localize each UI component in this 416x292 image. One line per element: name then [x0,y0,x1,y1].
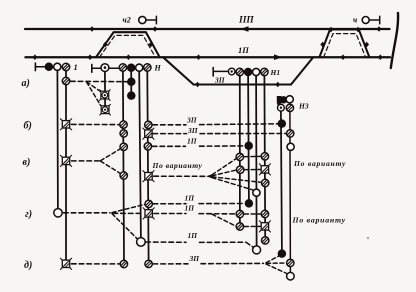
row б filled circle right [278,120,286,128]
row в lower hatched circle c123 [120,172,127,179]
row г dashed line3 right [200,241,247,243]
dash between y170 [245,169,261,171]
speckle [367,237,369,239]
row б dashed line 1 right [200,123,278,126]
tick on 3П [195,82,200,88]
row г dashed left [64,212,111,214]
signal group 1 mast [35,63,45,71]
tick on 1П right [378,54,383,60]
svg-text:1П: 1П [238,45,249,55]
signal group Н hatched lamp [119,64,126,71]
signal ч2 [123,16,157,25]
row д dashed mid [153,263,188,265]
svg-text:1П: 1П [185,204,196,213]
filled circle c281 y253 [278,250,286,258]
svg-text:По варианту: По варианту [293,159,346,168]
svg-text:г): г) [25,209,32,220]
row б hatched circle c123 [120,121,127,128]
svg-text:3П: 3П [214,76,226,85]
tick on right slope [149,42,154,48]
crossover trapezoid left dashed [100,35,156,57]
turnout diagonal 1П to 3П [163,57,194,84]
row а fan dash 1 [87,82,101,92]
row г dashed line2 mid [154,213,186,215]
row в hatched square [60,155,71,166]
track line 1П [25,56,390,58]
page curve right edge [391,13,398,68]
svg-text:1П: 1П [185,194,196,203]
tick on 1П [196,54,201,60]
row г hatched circle c265 y214 [261,210,268,217]
svg-text:3П: 3П [186,116,198,125]
svg-text:IIП: IIП [238,16,254,26]
row б line3 hatched circle c148 [144,143,151,150]
signal group Н1 open lamp [253,68,260,75]
crossover trapezoid left solid [96,32,160,57]
signal group Н open lamp [136,64,143,71]
hatched square c265 y169 [259,164,270,175]
fan dash 4 [212,178,253,190]
svg-text:а): а) [22,78,30,89]
row в fork up dash [101,149,121,161]
hatched circle c265 y183 [262,179,269,186]
column line x281 [281,111,282,250]
svg-text:ч2: ч2 [123,16,131,25]
tick on right trap right slope [364,42,369,48]
row б dashed line 1 mid [153,124,186,126]
row д dashed left [72,263,120,265]
column line x265 [263,76,266,237]
signal group Н3 dot lamp [278,104,285,111]
row а hatched circle [62,77,69,84]
row б dashed line 3 mid [152,145,185,147]
row г hatched circle c240 y214 [236,210,243,217]
signal group Н1 filled lamp [244,68,252,76]
signal group 1 filled lamp [45,63,53,71]
column line x66 [65,71,67,260]
open circle c256 y193 [253,189,260,196]
fan dash 2 [212,170,236,176]
svg-text:ч: ч [353,16,357,25]
svg-text:Н: Н [154,64,162,73]
svg-text:в): в) [23,157,31,168]
signal group Н filled lamp [127,64,135,72]
row г dashed line3 mid [146,241,186,243]
svg-text:По варианту: По варианту [152,161,203,170]
svg-text:По варианту: По варианту [292,216,346,225]
row б hatched square [60,119,71,130]
track line IIП [25,28,390,30]
diagonal 3П rejoin 1П [291,58,313,85]
row д hatched circle c123 [120,260,127,267]
row г hatched square c148 y213 [143,208,154,219]
svg-text:3П: 3П [189,254,201,263]
stem between lamps [109,67,119,69]
hatched circle c265 y156 [261,153,268,160]
column line x290 [289,111,292,272]
row б dashed line 3 right [200,145,245,147]
signal group Н mast [92,64,101,72]
row а fan dash 2 [87,82,101,105]
row г open circle c141 [137,238,146,247]
row г dashed line1 mid [153,203,186,205]
row в dashed line left [72,160,100,162]
signal group Н3 block [277,96,288,107]
tick on IIП [153,26,158,32]
row г hatched square c265 y226 [259,221,270,232]
column line x240 [239,76,241,223]
diag dash to open circle [247,243,254,248]
arrow left on IIП [240,26,249,32]
row г hatched circle c240 y226 [236,223,243,230]
hatched circle c240 y170 [237,166,244,173]
tick on left slope [103,42,108,48]
fork arrowhead [206,174,214,179]
fan dash 3 [212,177,261,183]
tick top corner left [329,27,334,33]
row д hatched circle c148 [145,260,152,267]
row б hatched circle right c290 [287,130,294,137]
tick on IIП [90,26,95,32]
svg-text:б): б) [24,121,32,132]
hatched circle c265 y240 [262,237,269,244]
tick on 3П [275,82,280,88]
hatched circle c240 y157 [236,153,243,160]
svg-text:1: 1 [74,62,78,72]
signal group 1 open lamp [54,63,61,70]
fork д down dash [266,264,287,274]
svg-text:Н3: Н3 [298,102,309,111]
dash between y214 [244,213,260,215]
row б line3 hatched circle c123 [120,143,127,150]
row б dashed line 2 right [200,133,286,135]
tick on right trap left slope [320,42,325,48]
row г dashed line2 right [199,213,236,215]
row г fork mid dash [113,212,144,214]
row в fork down dash [101,161,121,174]
signal group Н1 hatched lamp 2 [261,68,268,75]
svg-text:1П: 1П [187,137,198,146]
arrow right on 1П [274,54,283,60]
tick on 1П left end [33,54,38,60]
fork д up dash [266,256,278,263]
row б dashed line 2 mid [153,133,187,135]
branch diag dash to y226 [212,214,236,226]
open circle c256 y250 [253,246,261,254]
tick on IIП right [377,26,382,32]
row б line2 hatched square c148 [143,128,154,139]
column line x148 [147,71,148,260]
row г hatched circle c148 y204 [145,200,152,207]
tick on 1П [88,54,93,60]
crossover trapezoid right dashed [324,34,366,58]
signal group Н1 dot lamp [228,68,235,75]
row б hatched circle c148 [145,121,152,128]
column line x248 [247,76,250,200]
row г open circle [54,209,62,217]
column line x140 [139,71,141,237]
row б dashed line 1 left [72,123,120,125]
svg-text:3П: 3П [187,126,199,135]
signal group Н hatched lamp 2 [144,64,151,71]
row г fork down dash [112,214,137,239]
switch square 1 [100,90,111,101]
row а dashed line [71,80,128,82]
column line x123.5 [123,71,124,260]
svg-text:д): д) [24,260,32,271]
row г dashed line1 right [199,203,245,205]
row г fork up dash [112,204,145,212]
tick top corner right [356,27,361,33]
svg-text:Н1: Н1 [270,68,281,77]
signal group Н1 hatched lamp [236,68,243,75]
row б line2 hatched circle c123 [120,130,127,137]
dash between y156 [244,155,260,157]
column line x57 [56,71,59,209]
row д dashed right [201,262,264,264]
fan dash 1 to hatched circle [212,159,236,175]
svg-text:1П: 1П [188,231,199,240]
column line x105 [104,72,106,106]
track line 3П [194,83,292,85]
tick on 1П [126,54,131,60]
signal group Н dot lamp [101,64,109,72]
dash between y226 [244,225,260,227]
switch square 2 [100,104,111,115]
open circle c290 y276 [287,272,295,280]
signal group Н3 hatched lamp [286,104,293,111]
signal group 1 hatched lamp [62,63,69,70]
row б filled circle 1П [245,142,253,150]
signal group Н3 open lamp [286,96,293,103]
tick on 1П [341,54,346,60]
row г filled circle y203 [245,200,253,208]
fork д mid dash [267,262,287,264]
crossover trapezoid right solid [319,30,369,58]
column line x256 [255,76,258,246]
row а lower filled circle [128,92,136,100]
open circle c290 y147 [287,143,294,150]
signal ч [353,16,380,25]
row а filled circle [128,78,136,86]
row в hatched square c148 [143,171,154,182]
hatched circle c290 y263 [287,259,294,266]
signal group Н1 mast [213,68,228,77]
column line x131 [130,72,132,92]
row д hatched square [60,258,71,269]
row в dashed to fork [154,175,206,177]
